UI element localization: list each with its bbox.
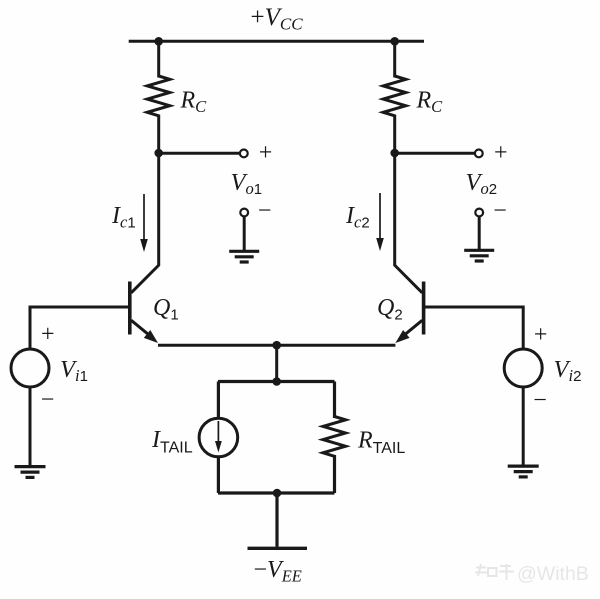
watermark: zhihu @WithB <box>475 564 514 580</box>
current label Ic1 <box>111 203 136 232</box>
node: rail-right junction dot <box>390 37 399 46</box>
node: right collector/output junction dot <box>390 149 399 158</box>
wire: Q2 base wire from Vi2 <box>424 306 524 309</box>
svg-text:Vi2: Vi2 <box>554 356 582 385</box>
node: left collector/output junction dot <box>154 149 163 158</box>
source Vi1 (circle) <box>11 349 49 387</box>
wire: tail top bar <box>218 380 335 383</box>
node: tail top junction dot <box>272 377 281 386</box>
current source ITAIL (circle with down arrow) <box>199 418 238 457</box>
label ITAIL <box>151 427 193 457</box>
wire: tail left branch lower <box>217 456 220 493</box>
svg-text:RTAIL: RTAIL <box>357 428 405 458</box>
svg-text:RC: RC <box>416 88 444 117</box>
label -VEE <box>254 557 302 586</box>
wire: +VCC supply rail <box>129 40 424 43</box>
label: plus sign at Vi1 <box>41 322 55 348</box>
wire: rail to left RC <box>157 41 160 77</box>
svg-text:Vo2: Vo2 <box>466 169 498 198</box>
wire: Vo1 minus terminal to ground <box>243 217 246 252</box>
svg-text:+: + <box>494 140 508 166</box>
transistor Q2 (NPN, right) <box>395 282 423 344</box>
current arrow Ic1 <box>140 194 148 252</box>
transistor Q1 (NPN, left) <box>130 282 158 344</box>
node: emitter bus junction dot <box>272 341 281 350</box>
label: minus sign at Vo1 <box>258 198 272 224</box>
wire: right output node to Vo2 terminal <box>395 152 475 155</box>
terminal: Vo1 minus (open circle) <box>240 209 248 217</box>
wire: left RC to output node <box>157 115 160 156</box>
label Q2 <box>377 295 403 324</box>
ground: below Vo2 <box>464 250 494 261</box>
resistor RTAIL <box>323 417 346 457</box>
label Vo2 <box>466 169 498 198</box>
svg-text:+: + <box>534 322 548 348</box>
wire: tail left branch upper <box>217 382 220 420</box>
wire: emitter bus down to tail <box>275 345 278 381</box>
wire: Vi1 top lead <box>29 306 32 350</box>
svg-text:RC: RC <box>180 88 208 117</box>
wire: tail right branch lower <box>333 455 336 493</box>
label: plus sign at Vo2 <box>494 140 508 166</box>
label: minus sign at Vo2 <box>493 198 507 224</box>
label +VCC <box>251 4 304 34</box>
label: plus sign at Vo1 <box>259 140 273 166</box>
wire: tail right branch upper <box>333 382 336 419</box>
svg-text:Ic1: Ic1 <box>111 203 136 232</box>
supply bar -VEE <box>248 547 308 550</box>
label Vo1 <box>231 169 263 198</box>
svg-text:Q1: Q1 <box>153 295 179 324</box>
wire: Vi1 bottom lead <box>29 387 32 467</box>
wire: Vi2 top lead <box>522 306 525 350</box>
svg-text:+VCC: +VCC <box>251 4 304 34</box>
svg-text:−: − <box>41 387 55 413</box>
resistor RC (right) <box>383 76 406 116</box>
node: rail-left junction dot <box>154 37 163 46</box>
svg-text:−VEE: −VEE <box>254 557 302 586</box>
wire: tail bottom to -VEE <box>275 493 278 547</box>
svg-text:ITAIL: ITAIL <box>151 427 193 457</box>
wire: Q1 base wire from Vi1 <box>30 306 130 309</box>
wire: right RC to output node <box>393 115 396 156</box>
label Q1 <box>153 295 179 324</box>
wire: left output node down to Q1 collector <box>131 153 159 293</box>
current label Ic2 <box>345 203 370 232</box>
svg-text:Ic2: Ic2 <box>345 203 370 232</box>
wire: tail bottom bar <box>218 491 335 494</box>
value label RC (left) <box>180 88 208 117</box>
ground: below Vi1 <box>15 467 46 478</box>
ground: below Vo1 <box>229 251 259 262</box>
svg-text:−: − <box>533 388 547 414</box>
svg-text:Vi1: Vi1 <box>60 356 88 385</box>
label Vi2 <box>554 356 582 385</box>
value label RTAIL <box>357 428 405 458</box>
value label RC (right) <box>416 88 444 117</box>
source Vi2 (circle) <box>504 349 542 387</box>
svg-text:@WithB: @WithB <box>517 563 589 585</box>
label: plus sign at Vi2 <box>534 322 548 348</box>
node: tail bottom junction dot <box>273 489 282 498</box>
svg-text:−: − <box>258 198 272 224</box>
svg-text:−: − <box>493 198 507 224</box>
resistor RC (left) <box>147 76 170 116</box>
terminal: Vo1 plus (open circle) <box>240 150 248 158</box>
svg-text:+: + <box>259 140 273 166</box>
label: minus sign at Vi1 <box>41 387 55 413</box>
terminal: Vo2 plus (open circle) <box>475 150 483 158</box>
svg-text:Q2: Q2 <box>377 295 403 324</box>
current arrow Ic2 <box>376 193 384 251</box>
wire: Vo2 minus terminal to ground <box>478 217 481 251</box>
wire: rail to right RC <box>393 41 396 77</box>
svg-text:Vo1: Vo1 <box>231 169 263 198</box>
svg-text:+: + <box>41 322 55 348</box>
wire: left output node to Vo1 terminal <box>159 152 240 155</box>
wire: right output node down to Q2 collector <box>395 153 423 293</box>
label Vi1 <box>60 356 88 385</box>
label: minus sign at Vi2 <box>533 388 547 414</box>
ground: below Vi2 <box>508 466 539 477</box>
terminal: Vo2 minus (open circle) <box>475 209 483 217</box>
wire: emitter bus Q1-Q2 <box>158 344 395 347</box>
wire: Vi2 bottom lead <box>522 387 525 466</box>
